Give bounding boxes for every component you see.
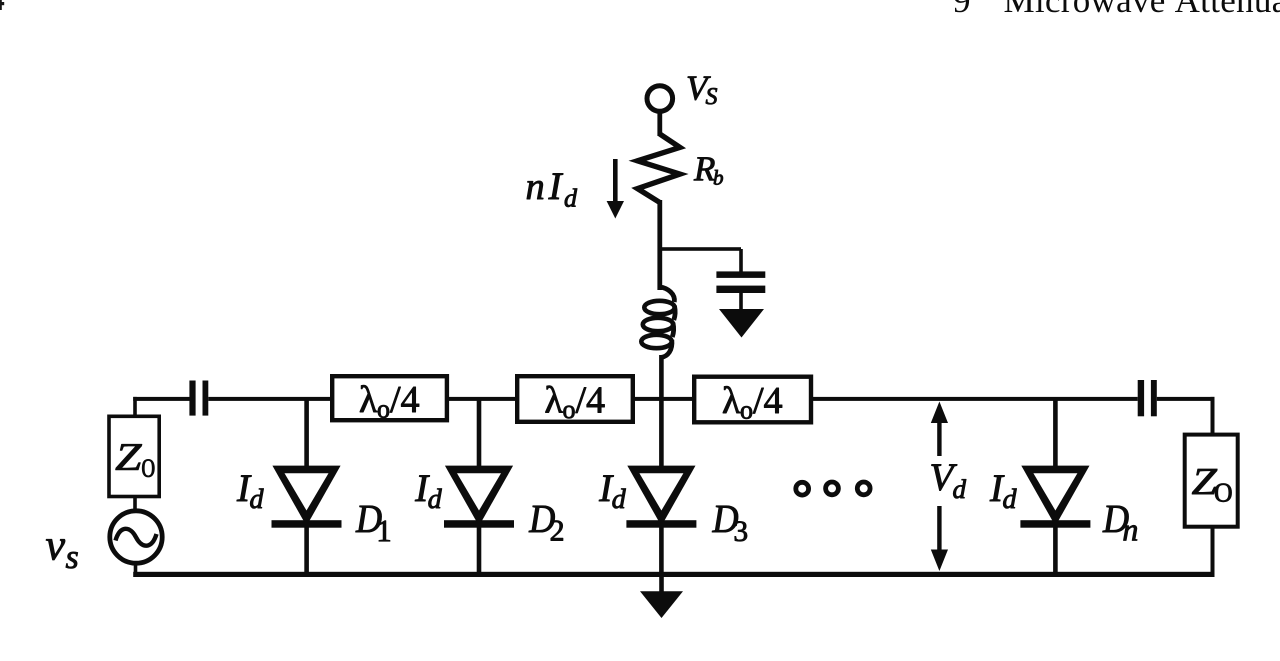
wire inductor to main line (D3 branch top): [659, 355, 664, 400]
wire right Z0 to bottom rail: [1211, 526, 1215, 576]
main line segment B: [208, 397, 332, 401]
main line segment E: [813, 397, 1138, 401]
right corner stub down to Z0: [1211, 397, 1215, 434]
diode Dn branch wire bottom: [1053, 527, 1058, 576]
label D_1: [356, 506, 390, 541]
label I_d (D3): [599, 476, 626, 509]
label V_S: [688, 77, 717, 105]
quarter-wave box 1: [332, 376, 447, 420]
main line segment C: [449, 397, 515, 401]
main line segment A (left corner to left coupling cap): [133, 397, 191, 401]
diode D1 branch wire top: [304, 398, 309, 468]
diode D1: [272, 466, 342, 528]
bypass capacitor: [716, 271, 765, 310]
main line segment D: [635, 397, 692, 401]
source resistor Z0 box (left): [109, 416, 159, 496]
page number fragment "4" top-left: [0, 0, 4, 10]
diode D1 branch wire bottom: [304, 527, 309, 576]
label D_n: [1103, 506, 1138, 541]
current arrow nId: [607, 159, 624, 219]
ground (bottom center): [640, 591, 683, 618]
quarter-wave box 2: [517, 376, 633, 422]
label D_3: [712, 506, 747, 541]
diode D3 branch wire bottom: [659, 527, 664, 576]
label I_d (Dn): [990, 476, 1017, 509]
diode Dn: [1020, 466, 1090, 528]
label nI_d: [527, 174, 577, 207]
label I_d (D2): [415, 476, 442, 509]
diode D2 branch wire top: [477, 398, 482, 468]
diode D3 branch wire (center column): [659, 398, 664, 468]
left corner stub down to Z0: [133, 397, 137, 416]
ellipsis dots: [796, 482, 870, 495]
wire source to bottom rail: [134, 562, 138, 576]
ground (bypass cap): [719, 309, 764, 338]
label R_b: [694, 157, 723, 184]
diode D2: [444, 466, 514, 528]
source vs circle: [110, 511, 162, 563]
bottom rail: [133, 572, 1214, 577]
wire Rb to node: [657, 200, 662, 290]
quarter-wave box 3: [694, 377, 811, 423]
ground stub (bottom center): [659, 576, 664, 592]
diode D2 branch wire bottom: [477, 527, 482, 576]
load resistor Z0 box (right): [1185, 435, 1238, 527]
label V_d: [932, 465, 967, 499]
label D_2: [529, 506, 563, 541]
main line segment F to right corner: [1157, 397, 1215, 401]
label I_d (D1): [237, 476, 264, 509]
diode D3: [626, 466, 696, 528]
terminal VS circle: [647, 86, 673, 112]
inductor (RF choke): [641, 287, 675, 358]
wire VS to Rb: [657, 110, 662, 136]
wire Z0 to source: [133, 496, 137, 512]
right coupling capacitor: [1138, 380, 1157, 416]
node branch wire to bypass cap: [659, 247, 743, 272]
label v_s: [46, 539, 78, 568]
left coupling capacitor: [189, 381, 208, 416]
diode Dn branch wire top: [1053, 398, 1058, 468]
running header "9 Microwave Attenua...": [954, 0, 1280, 12]
resistor Rb: [638, 134, 680, 203]
Vd measurement arrow: [931, 402, 948, 572]
